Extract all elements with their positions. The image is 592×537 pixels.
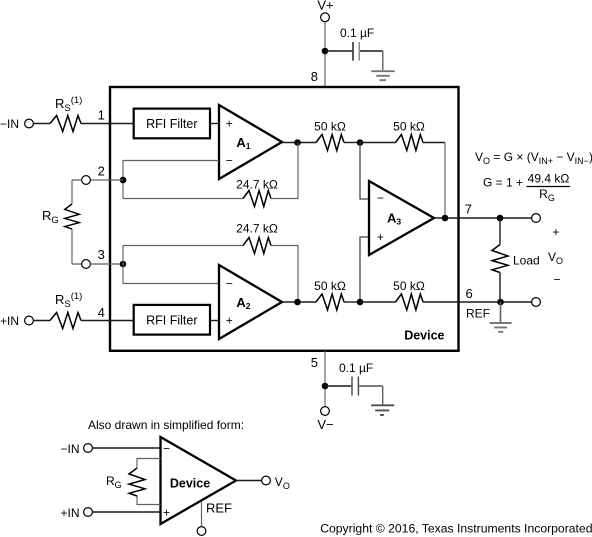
resistor RS1 [50, 116, 81, 132]
wire RFI1 to A1 + [210, 123, 219, 125]
wire node to 50k top-right [360, 142, 396, 144]
svg-text:8: 8 [311, 69, 318, 84]
svg-text:7: 7 [465, 202, 472, 217]
svg-text:−: − [553, 273, 560, 287]
node A2 output junction [294, 299, 301, 306]
node A3 inverting junction [357, 139, 364, 146]
node A3 output junction [442, 215, 449, 222]
svg-text:RFI Filter: RFI Filter [146, 117, 197, 131]
svg-text:−: − [377, 191, 384, 205]
terminal -IN simplified [84, 444, 93, 453]
wire A3 inverting input [360, 143, 369, 200]
resistor RS2 [50, 313, 81, 329]
svg-text:−: − [226, 277, 233, 291]
svg-text:0.1 µF: 0.1 µF [339, 361, 373, 375]
wire A3 non-inverting input [360, 237, 369, 302]
svg-text:RG: RG [539, 187, 555, 203]
svg-text:REF: REF [206, 501, 232, 516]
svg-text:Device: Device [170, 476, 210, 490]
resistor 50k top-right [396, 135, 424, 151]
node junction V- / C2 [322, 383, 329, 390]
svg-text:+: + [163, 506, 170, 520]
ground symbol bottom [371, 405, 394, 415]
resistor 50k bottom-right [396, 294, 424, 310]
wire RFI2 to A2 + [210, 320, 219, 322]
ground symbol top [371, 71, 395, 80]
svg-text:RS(1): RS(1) [55, 291, 82, 310]
node pin2 junction [120, 177, 127, 184]
terminal -IN [25, 119, 34, 128]
svg-text:49.4 kΩ: 49.4 kΩ [528, 172, 570, 186]
svg-text:Device: Device [404, 329, 444, 343]
wire junction to C1 [325, 50, 352, 52]
RFI filter block 2 [134, 305, 210, 335]
svg-text:Load: Load [513, 254, 540, 268]
op-amp A1 [219, 105, 282, 179]
terminal REF [532, 298, 541, 307]
op-amp Device simplified [161, 437, 237, 524]
svg-text:24.7 kΩ: 24.7 kΩ [236, 222, 278, 236]
svg-text:RS(1): RS(1) [55, 95, 82, 114]
wire load bottom [499, 273, 501, 303]
wire A3 feedback vertical [444, 143, 446, 219]
device outer box [110, 87, 459, 351]
svg-text:VO = G × (VIN+ − VIN−): VO = G × (VIN+ − VIN−) [475, 150, 592, 166]
svg-text:50 kΩ: 50 kΩ [314, 120, 346, 134]
wire output simplified [236, 480, 262, 482]
svg-text:1: 1 [98, 108, 105, 123]
wire pin 5 vertical [324, 351, 326, 407]
wire A1 output [282, 142, 316, 144]
svg-text:−: − [226, 153, 233, 167]
svg-text:RG: RG [106, 474, 122, 490]
resistor 50k bottom-left [316, 294, 344, 310]
wire junction to C2 [325, 385, 351, 387]
wire 50k bottom-left to node [344, 301, 360, 303]
node pin3 junction [120, 261, 127, 268]
wire REF simplified [201, 501, 203, 526]
resistor 24.7k A1 [243, 191, 271, 207]
svg-text:V−: V− [317, 417, 333, 432]
svg-text:50 kΩ: 50 kΩ [393, 279, 425, 293]
wire node to 50k bottom-right [360, 301, 396, 303]
svg-text:−IN: −IN [60, 442, 79, 456]
svg-text:5: 5 [311, 355, 318, 370]
wire A2 output [282, 301, 316, 303]
terminal V+ [321, 13, 330, 22]
svg-text:V+: V+ [317, 0, 333, 13]
svg-text:VO: VO [548, 250, 563, 266]
svg-text:G = 1 +: G = 1 + [483, 176, 523, 190]
wire A1 feedback lower [123, 198, 243, 200]
svg-text:4: 4 [98, 305, 105, 320]
wire 24.7k to A2 out [271, 246, 298, 303]
wire C2 to ground [359, 385, 383, 387]
ground symbol REF [490, 323, 512, 332]
resistor 24.7k A2 [243, 238, 271, 254]
terminal VO simplified [262, 476, 271, 485]
op-amp A3 [369, 181, 434, 255]
terminal V- [321, 407, 330, 416]
wire +IN to RS2 [33, 320, 50, 322]
wire pin 6 REF [423, 301, 532, 303]
wire pin 2 [90, 179, 123, 181]
svg-text:+IN: +IN [0, 314, 19, 328]
svg-text:3: 3 [98, 247, 105, 262]
svg-text:+: + [552, 225, 559, 239]
svg-text:+: + [226, 314, 233, 328]
terminal +IN simplified [84, 508, 93, 517]
wire -IN to RS1 [33, 123, 50, 125]
wire pin4 to RFI filter 2 [81, 320, 133, 322]
svg-text:REF: REF [466, 307, 490, 321]
node load junction top [497, 215, 504, 222]
wire REF to ground [500, 302, 502, 322]
wire 24.7k to A1 out [271, 143, 298, 199]
wire pin 3 [90, 263, 123, 265]
svg-text:2: 2 [98, 163, 105, 178]
wire pin1 to RFI filter 1 [81, 123, 133, 125]
wire A2 feedback upper [123, 245, 243, 247]
wire -IN simplified [92, 447, 160, 449]
capacitor C 0.1uF bottom plates [352, 377, 358, 396]
wire 50k top-right to corner [423, 142, 445, 144]
svg-text:VO: VO [275, 475, 290, 491]
svg-text:RG: RG [42, 208, 59, 226]
terminal VO out [532, 214, 541, 223]
svg-text:−IN: −IN [0, 117, 19, 131]
terminal REF simplified [197, 527, 206, 536]
resistor RG external [72, 180, 82, 264]
resistor RG simplified [137, 459, 161, 505]
resistor Load [492, 245, 508, 273]
svg-text:6: 6 [466, 286, 473, 301]
svg-text:+: + [226, 117, 233, 131]
terminal pin 3 [82, 260, 91, 269]
wire C1 to ground [360, 50, 383, 52]
node junction V+ / C1 [322, 48, 329, 55]
wire load top [499, 218, 501, 245]
wire A2 inverting input [123, 246, 219, 284]
terminal pin 2 [82, 176, 91, 185]
wire V+ vertical to pin 8 [324, 22, 326, 87]
wire 50k top-left to node [344, 142, 360, 144]
svg-text:24.7 kΩ: 24.7 kΩ [236, 178, 278, 192]
svg-text:+IN: +IN [60, 506, 79, 520]
wire A1 inverting input [123, 161, 219, 199]
node REF junction [497, 299, 504, 306]
svg-text:Also drawn in simplified form:: Also drawn in simplified form: [88, 418, 244, 432]
svg-text:0.1 µF: 0.1 µF [340, 26, 374, 40]
svg-text:50 kΩ: 50 kΩ [314, 279, 346, 293]
RFI filter block 1 [134, 109, 210, 139]
svg-text:50 kΩ: 50 kΩ [393, 120, 425, 134]
op-amp A2 [219, 265, 282, 339]
wire A3 output to pin 7 [434, 217, 532, 219]
wire +IN simplified [92, 511, 160, 513]
node A3 non-inverting junction [357, 299, 364, 306]
resistor 50k top-left [316, 135, 344, 151]
svg-text:+: + [377, 230, 384, 244]
terminal +IN [25, 316, 34, 325]
node A1 output junction [294, 139, 301, 146]
svg-text:Copyright © 2016, Texas Instru: Copyright © 2016, Texas Instruments Inco… [320, 522, 592, 536]
svg-text:RFI Filter: RFI Filter [146, 314, 197, 328]
svg-text:−: − [163, 442, 170, 456]
capacitor C 0.1uF top plates [352, 42, 354, 61]
